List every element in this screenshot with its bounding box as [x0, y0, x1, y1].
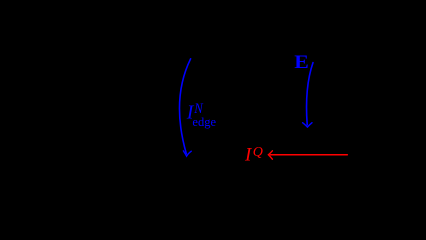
label I^N_edge (blue) — [186, 101, 217, 129]
svg-text:E: E — [294, 52, 309, 72]
svg-text:edge: edge — [192, 115, 216, 129]
label I^Q (red) — [244, 145, 263, 166]
red arrow pointing left to I^Q — [268, 151, 347, 159]
blue curved arrow (bows left, from top down to tip near I^N_edge) — [180, 59, 192, 156]
blue arrow from E downward — [303, 63, 313, 128]
svg-text:Q: Q — [253, 145, 263, 160]
